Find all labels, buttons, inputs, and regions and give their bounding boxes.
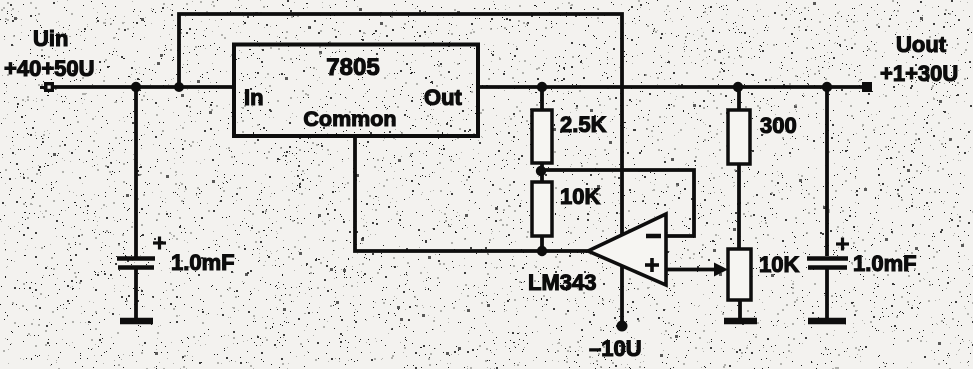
- wire 2.5K bottom lead to node: [540, 163, 544, 182]
- junction node out-C2: [822, 82, 832, 92]
- output terminal square: [862, 82, 872, 92]
- wire left capacitor to ground: [134, 269, 138, 318]
- junction node 10K-opamp output: [537, 246, 547, 256]
- resistor R2 10K: [532, 182, 552, 236]
- junction node input-toprail: [174, 82, 184, 92]
- ground below potentiometer: [724, 318, 757, 325]
- ground below C2: [808, 318, 846, 325]
- capacitor C1 1.0mF plates: [117, 259, 155, 268]
- wire op-amp V- to -10U: [620, 266, 624, 326]
- capacitor C2 1.0mF plates: [807, 259, 848, 268]
- svg-text:1.0mF: 1.0mF: [171, 250, 235, 275]
- junction node out-300: [733, 82, 743, 92]
- ground below C1: [120, 318, 153, 325]
- junction node 2.5K-10K feedback: [536, 166, 546, 176]
- junction node out-2.5K: [537, 82, 547, 92]
- capacitor C2 plus sign: [836, 238, 849, 251]
- resistor R1 2.5K: [532, 110, 552, 163]
- regulator U1 7805 box: [234, 45, 478, 137]
- wire op-amp noninverting input to potentiometer wiper: [666, 268, 716, 272]
- junction node input-cap: [131, 82, 141, 92]
- wire 10K bottom lead: [540, 236, 544, 251]
- wire right capacitor to ground: [825, 268, 829, 318]
- wire top rail Uin to op-amp V+: [179, 14, 622, 235]
- wire left capacitor branch: [134, 87, 138, 257]
- potentiometer R4 10K: [728, 249, 751, 300]
- wire 7805 Common to op-amp output: [355, 136, 588, 251]
- svg-text:Out: Out: [424, 85, 463, 110]
- svg-text:300: 300: [760, 113, 797, 138]
- svg-text:10K: 10K: [759, 252, 799, 277]
- svg-text:1.0mF: 1.0mF: [853, 251, 917, 276]
- wire 7805 Out to Uout terminal: [477, 85, 864, 89]
- resistor R3 300: [728, 110, 750, 164]
- svg-text:LM343: LM343: [528, 270, 596, 295]
- op-amp minus input sign: [646, 234, 661, 239]
- terminal node -10U: [617, 321, 628, 332]
- wire potentiometer to ground: [738, 300, 742, 318]
- svg-text:–10U: –10U: [589, 336, 642, 361]
- wire input Uin to 7805 In: [51, 85, 234, 89]
- wire 2.5K top lead: [540, 87, 544, 110]
- wire 300 bottom lead to potentiometer: [737, 164, 741, 249]
- wire 300 top lead: [737, 87, 741, 110]
- svg-text:Common: Common: [303, 107, 396, 131]
- svg-text:Uout: Uout: [896, 32, 947, 57]
- svg-text:7805: 7805: [326, 54, 379, 81]
- svg-text:In: In: [244, 85, 264, 110]
- op-amp plus input sign: [645, 258, 659, 272]
- wire right capacitor branch: [825, 87, 829, 256]
- potentiometer wiper arrowhead: [714, 263, 728, 277]
- svg-text:2.5K: 2.5K: [560, 112, 607, 137]
- input terminal square: [44, 82, 54, 92]
- op-amp U2 LM343 triangle: [588, 214, 666, 285]
- svg-text:Uin: Uin: [33, 26, 68, 51]
- svg-text:10K: 10K: [560, 184, 600, 209]
- svg-text:+40+50U: +40+50U: [4, 56, 95, 81]
- capacitor C1 plus sign: [153, 237, 166, 250]
- svg-text:+1+30U: +1+30U: [880, 61, 958, 86]
- wire feedback loop node to op-amp inverting input: [542, 170, 694, 236]
